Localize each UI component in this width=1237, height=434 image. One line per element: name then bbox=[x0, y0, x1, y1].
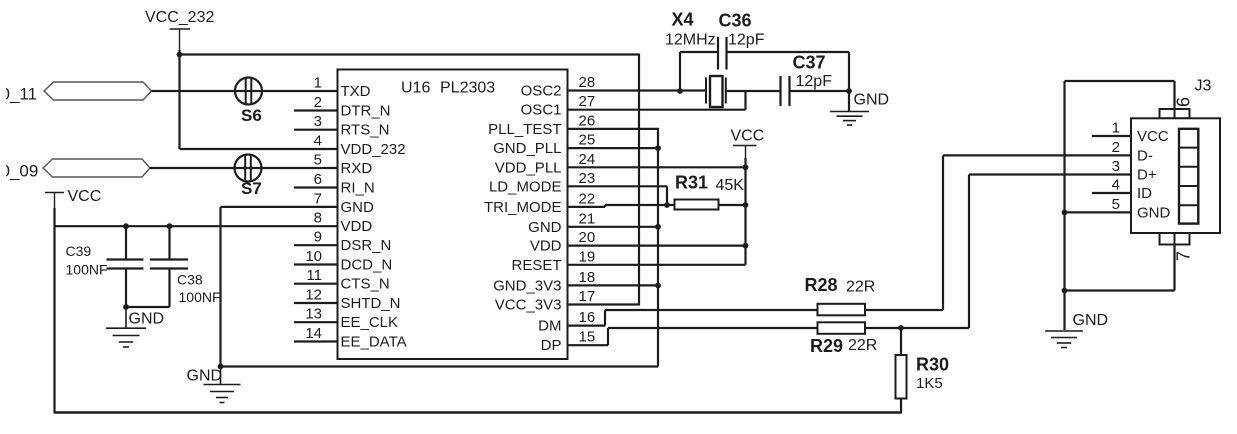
svg-text:R30: R30 bbox=[916, 355, 949, 375]
pin 27 OSC1 bbox=[521, 93, 746, 119]
junction dot pin18 gnd bbox=[655, 283, 661, 289]
resistor R30 bbox=[896, 328, 950, 414]
svg-text:C38: C38 bbox=[177, 272, 203, 288]
wire pin7 GND vertical bbox=[221, 207, 338, 368]
pin 25 GND_PLL bbox=[493, 132, 658, 158]
net connector hexagon 0_11 bbox=[44, 82, 152, 100]
svg-text:12pF: 12pF bbox=[796, 73, 833, 90]
svg-text:25: 25 bbox=[579, 132, 596, 149]
power symbol VCC left bbox=[45, 188, 101, 210]
svg-text:4: 4 bbox=[1112, 177, 1120, 194]
svg-text:2: 2 bbox=[314, 94, 322, 111]
pin 5 J3 GND bbox=[1112, 196, 1171, 222]
svg-text:D-: D- bbox=[1137, 147, 1153, 164]
svg-text:28: 28 bbox=[579, 74, 596, 91]
svg-text:DTR_N: DTR_N bbox=[341, 103, 391, 120]
svg-text:PLL_TEST: PLL_TEST bbox=[488, 121, 561, 138]
svg-text:VCC: VCC bbox=[68, 188, 102, 205]
svg-text:20: 20 bbox=[579, 229, 596, 246]
svg-text:EE_CLK: EE_CLK bbox=[341, 314, 399, 331]
svg-text:DCD_N: DCD_N bbox=[341, 257, 393, 274]
svg-text:1: 1 bbox=[1112, 120, 1120, 137]
svg-text:5: 5 bbox=[1112, 196, 1120, 213]
capacitor C36 bbox=[680, 37, 849, 70]
pin 17 VCC_3V3 bbox=[495, 288, 639, 314]
wire pin22 jog bbox=[605, 205, 675, 207]
pin 10 DCD_N bbox=[294, 248, 392, 274]
pin 20 VDD bbox=[530, 229, 746, 255]
wire R29 to J3 D+ bbox=[865, 175, 1131, 329]
wire gnd under IC bbox=[220, 365, 659, 367]
wire pin23 drop to R31 bbox=[666, 186, 668, 205]
wire bottom rail VCC to R30 bbox=[55, 411, 902, 413]
wire C38 bottom to C39 bottom bbox=[126, 306, 170, 308]
pin 16 DM bbox=[538, 309, 605, 335]
ground under IC bbox=[187, 367, 241, 403]
svg-text:22R: 22R bbox=[848, 337, 877, 354]
svg-text:0_09: 0_09 bbox=[1, 162, 39, 181]
pin 4 VDD_232 bbox=[314, 133, 406, 159]
svg-text:J3: J3 bbox=[1195, 78, 1212, 95]
wire pin 8 VDD rail bbox=[55, 225, 338, 227]
wire VCC mid vertical bbox=[744, 158, 746, 265]
svg-text:45K: 45K bbox=[716, 177, 745, 194]
svg-text:TXD: TXD bbox=[341, 83, 371, 100]
pin 24 VDD_PLL bbox=[495, 151, 746, 177]
svg-text:S6: S6 bbox=[241, 106, 262, 125]
junction dot pin7 gnd corner bbox=[218, 364, 224, 370]
svg-text:GND: GND bbox=[187, 368, 223, 385]
pin 5 RXD bbox=[314, 152, 373, 178]
capacitor C39 bbox=[66, 226, 144, 307]
crystal X4 labels bbox=[665, 10, 716, 49]
svg-text:RI_N: RI_N bbox=[341, 180, 375, 197]
pin 23 LD_MODE bbox=[489, 170, 667, 196]
svg-text:19: 19 bbox=[579, 248, 596, 265]
junction dot R31 right vcc bbox=[743, 202, 749, 208]
wire J3 gnd vertical bbox=[1063, 81, 1065, 330]
pin 15 DP bbox=[541, 329, 608, 355]
svg-text:4: 4 bbox=[314, 133, 322, 150]
junction dot pin24 vcc bbox=[743, 164, 749, 170]
svg-text:VCC_232: VCC_232 bbox=[145, 9, 214, 26]
svg-text:R29: R29 bbox=[810, 336, 843, 356]
svg-text:6: 6 bbox=[1174, 97, 1194, 107]
svg-text:DM: DM bbox=[538, 318, 561, 335]
svg-text:27: 27 bbox=[579, 93, 596, 110]
svg-text:11: 11 bbox=[306, 267, 322, 284]
svg-text:C36: C36 bbox=[719, 11, 752, 31]
junction dot pin25 gnd bbox=[655, 145, 661, 151]
wire C36 left drop bbox=[679, 52, 681, 91]
svg-text:OSC1: OSC1 bbox=[521, 102, 562, 119]
svg-text:100NF: 100NF bbox=[179, 289, 221, 305]
wire J3 shield bottom bbox=[1065, 245, 1175, 291]
jumper S6 bbox=[235, 78, 262, 126]
junction dot C39 top bbox=[123, 223, 129, 229]
pin 6 RI_N bbox=[294, 171, 375, 197]
pin 11 CTS_N bbox=[294, 267, 390, 293]
svg-text:7: 7 bbox=[1174, 251, 1194, 261]
resistor R29 bbox=[810, 322, 877, 356]
svg-text:RTS_N: RTS_N bbox=[341, 122, 390, 139]
svg-text:ID: ID bbox=[1137, 185, 1152, 202]
svg-text:C39: C39 bbox=[66, 243, 92, 259]
net connector hexagon 0_09 bbox=[43, 159, 150, 177]
wire hexagon 0_11 to S6 bbox=[152, 90, 338, 92]
pin 3 RTS_N bbox=[294, 113, 389, 139]
svg-text:22R: 22R bbox=[846, 279, 875, 296]
svg-text:17: 17 bbox=[579, 288, 596, 305]
svg-text:8: 8 bbox=[314, 210, 322, 227]
resistor R28 bbox=[805, 275, 876, 315]
svg-text:24: 24 bbox=[579, 151, 596, 168]
junction dot R30 top bbox=[898, 325, 904, 331]
ground J3 bbox=[1045, 312, 1108, 348]
pin 21 GND bbox=[528, 210, 658, 236]
wire VCC_232 vertical A bbox=[638, 54, 640, 306]
white clip over node 0_11 first glyph bbox=[0, 84, 6, 102]
pin 3 J3 D+ bbox=[1112, 158, 1157, 184]
svg-text:TRI_MODE: TRI_MODE bbox=[484, 199, 562, 216]
junction dot OSC2 node bbox=[677, 88, 683, 94]
ground caps bbox=[106, 307, 164, 347]
wire C37 right bbox=[790, 90, 850, 92]
pin 13 EE_CLK bbox=[294, 306, 398, 332]
svg-text:1: 1 bbox=[314, 75, 322, 92]
pin 7 shield bbox=[1160, 233, 1194, 261]
svg-text:RESET: RESET bbox=[511, 257, 561, 274]
wire hexagon 0_09 to S7 bbox=[150, 167, 338, 169]
junction dot C38 top bbox=[167, 223, 173, 229]
pin 2 DTR_N bbox=[294, 94, 391, 120]
svg-text:D+: D+ bbox=[1137, 167, 1157, 184]
pin 8 VDD bbox=[314, 210, 373, 236]
resistor R31 bbox=[675, 173, 746, 210]
svg-text:R31: R31 bbox=[675, 173, 708, 193]
svg-text:21: 21 bbox=[579, 210, 596, 227]
svg-text:S7: S7 bbox=[241, 179, 262, 198]
svg-text:VDD_232: VDD_232 bbox=[341, 141, 406, 158]
svg-text:C37: C37 bbox=[793, 53, 826, 73]
svg-text:PL2303: PL2303 bbox=[440, 80, 495, 97]
wire VCC left vertical bbox=[53, 208, 55, 414]
svg-text:DSR_N: DSR_N bbox=[341, 237, 392, 254]
svg-text:VDD: VDD bbox=[341, 218, 373, 235]
svg-text:GND: GND bbox=[854, 92, 890, 109]
svg-text:9: 9 bbox=[314, 229, 322, 246]
power symbol VCC mid bbox=[731, 128, 765, 161]
white clip over node 0_09 first glyph bbox=[0, 161, 6, 179]
junction dot R31 left node bbox=[664, 202, 670, 208]
wire DM step bbox=[605, 310, 818, 326]
junction dot caps gnd bbox=[123, 304, 129, 310]
junction dot pin21 gnd bbox=[655, 224, 661, 230]
svg-text:12MHz: 12MHz bbox=[665, 32, 716, 49]
connector J3 label bbox=[1195, 78, 1212, 95]
wire J3 shield top bbox=[1065, 81, 1175, 110]
svg-text:GND: GND bbox=[1137, 204, 1171, 221]
capacitor C38 bbox=[150, 226, 221, 307]
pin 14 EE_DATA bbox=[294, 325, 407, 351]
capacitor C37 bbox=[781, 53, 833, 107]
connector J3 body bbox=[1131, 118, 1220, 233]
junction dot C37 gnd node bbox=[846, 88, 852, 94]
svg-text:GND_PLL: GND_PLL bbox=[493, 140, 561, 157]
svg-text:GND: GND bbox=[129, 311, 165, 328]
svg-text:VCC: VCC bbox=[1137, 128, 1169, 145]
svg-text:VDD_PLL: VDD_PLL bbox=[495, 159, 562, 176]
svg-text:22: 22 bbox=[579, 190, 596, 207]
op-amp U16 PL2303 body bbox=[338, 70, 568, 360]
svg-text:SHTD_N: SHTD_N bbox=[341, 295, 401, 312]
svg-text:CTS_N: CTS_N bbox=[341, 276, 390, 293]
svg-text:X4: X4 bbox=[672, 10, 694, 30]
wire VCC_232 into pin 4 VDD_232 bbox=[180, 148, 338, 150]
svg-text:GND: GND bbox=[528, 219, 562, 236]
svg-text:3: 3 bbox=[1112, 158, 1120, 175]
wire VCC_232 vertical to pin 4 bbox=[178, 50, 180, 149]
wire GND bus vertical B bbox=[657, 128, 659, 367]
pin 1 J3 VCC bbox=[1092, 120, 1169, 146]
wire R28 to J3 D- bbox=[865, 155, 1131, 310]
power symbol VCC_232 bbox=[145, 9, 214, 52]
node 0_09 net label bbox=[1, 162, 39, 181]
svg-text:VCC_3V3: VCC_3V3 bbox=[495, 297, 562, 314]
svg-text:6: 6 bbox=[314, 171, 322, 188]
wire C36 right drop bbox=[848, 52, 850, 112]
svg-text:26: 26 bbox=[579, 112, 596, 129]
svg-text:15: 15 bbox=[579, 329, 596, 346]
wire VCC_232 rail to right bbox=[180, 53, 640, 55]
svg-text:RXD: RXD bbox=[341, 160, 373, 177]
svg-text:1K5: 1K5 bbox=[916, 375, 943, 392]
svg-text:GND_3V3: GND_3V3 bbox=[493, 277, 561, 294]
pin 4 J3 ID bbox=[1092, 177, 1152, 203]
svg-text:GND: GND bbox=[341, 199, 375, 216]
wire DP step bbox=[608, 328, 818, 345]
junction dot pin20 vcc bbox=[743, 243, 749, 249]
svg-text:23: 23 bbox=[579, 170, 596, 187]
svg-text:12: 12 bbox=[305, 287, 322, 304]
jumper S7 bbox=[235, 155, 262, 199]
crystal X4 bbox=[706, 76, 726, 107]
capacitor C36 labels bbox=[719, 11, 765, 49]
svg-text:14: 14 bbox=[305, 325, 322, 342]
svg-text:7: 7 bbox=[314, 190, 322, 207]
svg-text:10: 10 bbox=[305, 248, 322, 265]
svg-text:5: 5 bbox=[314, 152, 322, 169]
svg-text:LD_MODE: LD_MODE bbox=[489, 178, 562, 195]
pin 26 PLL_TEST bbox=[488, 112, 658, 137]
svg-text:VDD: VDD bbox=[530, 238, 562, 255]
pin 2 J3 D- bbox=[1112, 139, 1153, 165]
node 0_11 net label bbox=[1, 85, 38, 104]
pin 22 TRI_MODE bbox=[484, 190, 605, 216]
svg-text:2: 2 bbox=[1112, 139, 1120, 156]
svg-text:R28: R28 bbox=[805, 275, 838, 295]
pin 6 shield bbox=[1160, 97, 1194, 118]
svg-text:GND: GND bbox=[1073, 312, 1109, 329]
svg-text:16: 16 bbox=[579, 309, 596, 326]
svg-text:13: 13 bbox=[305, 306, 322, 323]
pin 7 GND bbox=[314, 190, 374, 216]
pin 18 GND_3V3 bbox=[493, 269, 658, 295]
pin 1 TXD bbox=[314, 75, 371, 101]
svg-text:12pF: 12pF bbox=[728, 32, 765, 49]
junction dot J3 pin5 bbox=[1062, 210, 1068, 216]
svg-text:OSC2: OSC2 bbox=[521, 83, 562, 100]
svg-text:100NF: 100NF bbox=[66, 262, 108, 278]
junction dot J3 shield gnd bbox=[1062, 288, 1068, 294]
pin 9 DSR_N bbox=[294, 229, 391, 255]
wire J3 pin5 gnd bbox=[1065, 211, 1132, 213]
wire OSC1 riser bbox=[744, 91, 746, 110]
svg-text:3: 3 bbox=[314, 113, 322, 130]
svg-text:EE_DATA: EE_DATA bbox=[341, 334, 407, 351]
svg-text:VCC: VCC bbox=[731, 128, 765, 145]
ground crystal bbox=[830, 92, 889, 126]
junction dot VCC_232 branch bbox=[177, 52, 183, 58]
connector J3 contacts bbox=[1179, 129, 1198, 224]
svg-text:U16: U16 bbox=[401, 80, 430, 97]
pin 12 SHTD_N bbox=[294, 287, 401, 313]
pin 28 OSC2 bbox=[521, 74, 706, 100]
svg-text:18: 18 bbox=[579, 269, 596, 286]
pin 19 RESET bbox=[511, 248, 745, 274]
wire crystal right to C37 bbox=[726, 90, 781, 92]
svg-text:DP: DP bbox=[541, 337, 562, 354]
